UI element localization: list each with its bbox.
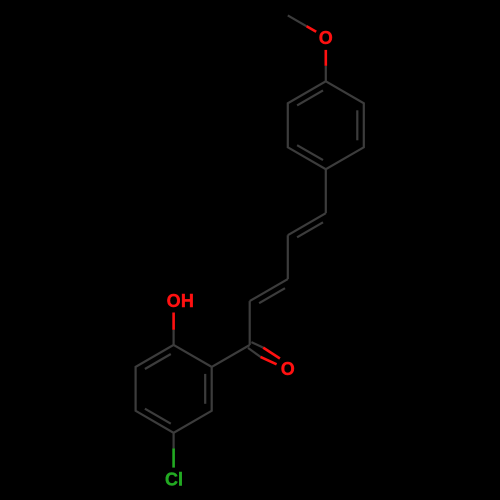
- svg-text:O: O: [319, 28, 333, 48]
- svg-text:O: O: [281, 359, 295, 379]
- svg-text:H: H: [181, 291, 194, 311]
- svg-text:O: O: [167, 291, 181, 311]
- svg-text:Cl: Cl: [165, 469, 183, 489]
